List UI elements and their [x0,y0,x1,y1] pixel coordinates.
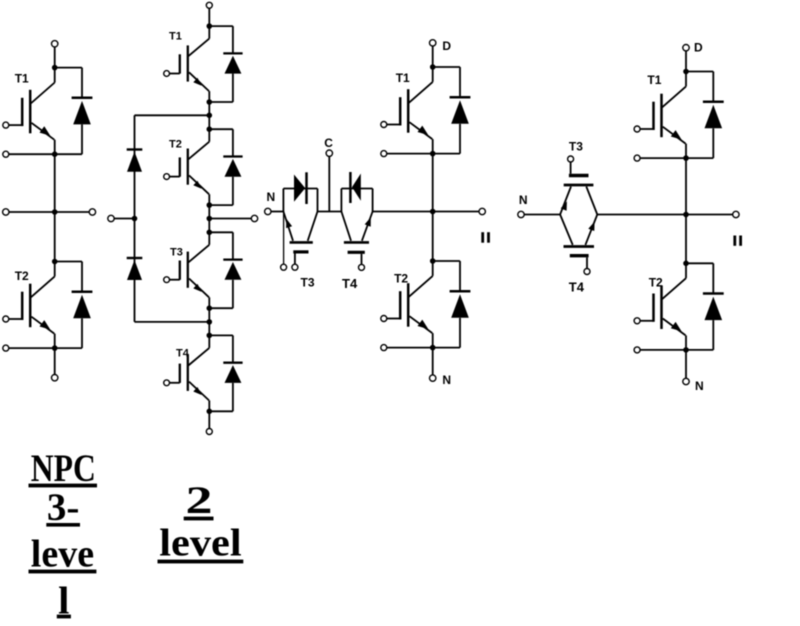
half-bridge 3 terminal N [430,373,452,387]
gate terminal of T4 [359,264,365,270]
caption NPC 3-level line 2 [46,486,80,529]
wire T4 to half-bridge 3 midpoint [373,211,433,213]
transistor Q2C (T3) [170,232,210,308]
label II for half-bridge 4 [733,236,742,246]
NPC midpoint output wire [209,218,251,220]
emitter terminal of Q4A [634,155,640,161]
gate terminal of Q1B [3,316,9,322]
NPC leg: top DC terminal [206,2,212,8]
wire top terminal to T1 [208,8,210,26]
transistor Q4A (T1) [640,72,686,159]
emitter rail of Q3A [387,153,460,155]
junction dot at emitter of Q3B [430,345,436,351]
transistor T4 (lower, of diamond) [560,215,597,295]
freewheel diode of Q4A [686,72,724,159]
freewheel diode of Q4B [686,263,724,350]
freewheel diode of Q2D [209,335,242,411]
gate terminal of Q4A [634,126,640,132]
NPC leg bottom DC terminal [206,429,212,435]
junction dot at collector of Q4B [683,261,689,267]
emitter terminal of Q3A [381,151,387,157]
emitter rail of Q1A [9,153,82,155]
svg-text:T2: T2 [169,138,182,150]
emitter rail of Q4A [640,157,713,159]
svg-text:T4: T4 [176,347,190,359]
transistor Q1A (T1) [9,68,55,155]
junction dot midpoint leg 1 [52,209,58,215]
caption 2 level line 1 [184,479,214,522]
svg-text:N: N [519,193,528,207]
junction dot lower clamp tap [207,319,213,325]
transistor Q4B (T2) [640,263,686,350]
wire T3 to T4 [318,211,342,213]
node N terminal (T-type input) [518,193,528,218]
wire T1 emitter to midpoint [432,154,434,261]
output terminal of half-bridge 3 [479,208,485,214]
svg-text:N: N [442,373,451,387]
transistor T4 (rotated IGBT) [341,212,372,292]
half-bridge leg 1: top DC terminal [52,41,58,47]
gate terminal of T3 [292,264,298,270]
svg-text:T1: T1 [396,71,410,85]
wire T3 emitter to T4 collector [208,308,210,335]
caption NPC 3-level line 1 [29,447,98,490]
junction dot at emitter of Q2B [207,202,213,208]
wire T1 emitter to midpoint [54,154,56,261]
transistor Q2A (T1) [169,26,209,102]
half-bridge 3: terminal D [430,39,452,53]
wire T1 emitter to midpoint [685,158,687,263]
emitter rail of Q3B [387,347,460,349]
junction dot at collector of Q3B [430,258,436,264]
junction dot clamp neutral input [132,216,138,222]
wire T4 emitter to bottom terminal [208,411,210,428]
junction dot at emitter of Q2D [207,409,213,415]
wire T2 emitter to terminal N [685,350,687,378]
svg-text:T2: T2 [649,275,663,289]
svg-text:T4: T4 [342,276,358,291]
wire lower clamp tap to clamp branch [135,321,210,323]
wire C terminal down to cell midpoint [328,156,330,211]
freewheel diode of Q2A [209,26,242,102]
freewheel diode of Q2B [209,129,242,205]
junction dot at emitter of Q1B [52,345,58,351]
output wire II of half-bridge 4 [686,214,733,216]
wire diamond right node to half-bridge 4 midpoint [597,214,686,216]
half-bridge 4: terminal D [683,41,703,55]
capacitor-tap terminal C [324,136,333,156]
junction dot at collector of Q1B [52,259,58,265]
freewheel diode of Q2C [209,232,242,308]
wire T2 emitter to bottom terminal [54,348,56,374]
gate terminal of Q2A [164,71,170,77]
svg-text:T2: T2 [394,272,408,286]
svg-text:T2: T2 [15,269,29,283]
svg-text:level: level [159,522,241,565]
transistor Q3B (T2) [387,261,433,348]
antiparallel diode of T4 [341,172,372,212]
midpoint right terminal of leg 1 [89,209,95,215]
transistor T3 (upper, of diamond) [560,139,597,214]
svg-text:T1: T1 [169,30,182,42]
antiparallel diode of T3 [283,172,317,211]
svg-text:T3: T3 [170,247,183,259]
emitter terminal of Q4B [634,347,640,353]
emitter rail of Q1B [9,347,82,349]
transistor T3 (rotated IGBT) [283,212,317,290]
wire top terminal to T1 collector [54,47,56,68]
clamp branch vertical wire [134,115,136,322]
emitter terminal of Q3B [381,345,387,351]
emitter rail of Q4B [640,349,713,351]
junction dot at collector of Q3A [430,64,436,70]
svg-text:T3: T3 [569,139,583,153]
gate terminal of Q2C [164,277,170,283]
svg-text:leve: leve [31,533,94,576]
emitter terminal of Q1A [3,151,9,157]
junction dot at emitter of Q4B [683,347,689,353]
midpoint rail of leg 1 [9,211,89,213]
svg-text:N: N [695,379,704,393]
junction dot midpoint half-bridge 3 [430,209,436,215]
bottom DC terminal of leg 1 [52,375,58,381]
junction dot at collector of Q2D [207,333,213,339]
wire N to T3 cell [271,211,283,213]
junction dot at emitter of Q2A [207,99,213,105]
freewheel diode of Q1A [55,68,93,155]
junction dot at emitter of Q3A [430,151,436,157]
gate terminal of Q1A [3,122,9,128]
output wire II of half-bridge 3 [433,211,479,213]
gate terminal of upper T3 [568,156,574,162]
junction dot at emitter of Q1A [52,151,58,157]
svg-text:T3: T3 [301,276,315,290]
freewheel diode of Q1B [55,262,93,349]
clamp diode D6 [127,258,143,280]
wire N to diamond left node [524,214,560,216]
gate terminal of Q2B [164,174,170,180]
gate terminal of Q3A [381,122,387,128]
junction dot midpoint half-bridge 4 [683,212,689,218]
gate terminal of Q2D [164,380,170,386]
junction dot at emitter of Q2C [207,305,213,311]
kelvin emitter terminal of T3 [281,264,287,270]
output terminal of half-bridge 4 [733,211,739,217]
transistor Q2D (T4) [170,335,210,411]
wire T2 emitter to terminal N [432,348,434,375]
wire D to T1 [685,51,687,72]
transistor Q1B (T2) [9,262,55,349]
kelvin emitter lead of T3 [283,212,285,265]
node N terminal (cell input) [265,190,276,215]
svg-text:D: D [694,41,703,55]
svg-text:D: D [442,39,451,53]
freewheel diode of Q3B [433,261,471,348]
midpoint left terminal of leg 1 [3,209,9,215]
junction dot at collector of Q1A [52,65,58,71]
svg-text:3-: 3- [47,486,80,529]
NPC midpoint output terminal [251,215,257,221]
junction dot at collector of Q4A [683,69,689,75]
wire T1 emitter to T2 collector [208,102,210,129]
gate terminal of Q3B [381,316,387,322]
junction dot upper clamp tap [207,113,213,119]
label II for half-bridge 3 [481,232,490,243]
svg-text:T1: T1 [15,71,29,85]
junction dot at collector of Q2C [207,230,213,236]
clamp diode D5 [127,150,143,172]
caption 2 level line 2 [158,522,244,565]
wire upper clamp tap to clamp branch [135,114,210,116]
clamp neutral input terminal [108,215,114,221]
gate terminal of lower T4 [584,269,590,275]
junction dot at emitter of Q4A [683,155,689,161]
caption NPC 3-level line 3 [29,533,97,576]
gate terminal of Q4B [634,318,640,324]
svg-text:2: 2 [186,479,213,522]
junction dot at collector of Q2A [207,23,213,29]
transistor Q3A (T1) [387,67,433,154]
emitter terminal of Q1B [3,345,9,351]
freewheel diode of Q3A [433,67,471,154]
junction dot NPC midpoint [207,216,213,222]
half-bridge 4 terminal N [683,378,704,393]
transistor Q2B (T2) [169,129,209,205]
caption NPC 3-level line 4 [57,579,71,622]
svg-text:C: C [324,136,333,150]
wire T2 emitter to T3 collector [208,205,210,232]
svg-text:T4: T4 [569,280,585,295]
junction dot at collector of Q2B [207,126,213,132]
svg-text:N: N [267,190,276,204]
wire clamp neutral input [114,218,134,220]
wire D to T1 [432,46,434,67]
svg-text:T1: T1 [647,73,661,87]
